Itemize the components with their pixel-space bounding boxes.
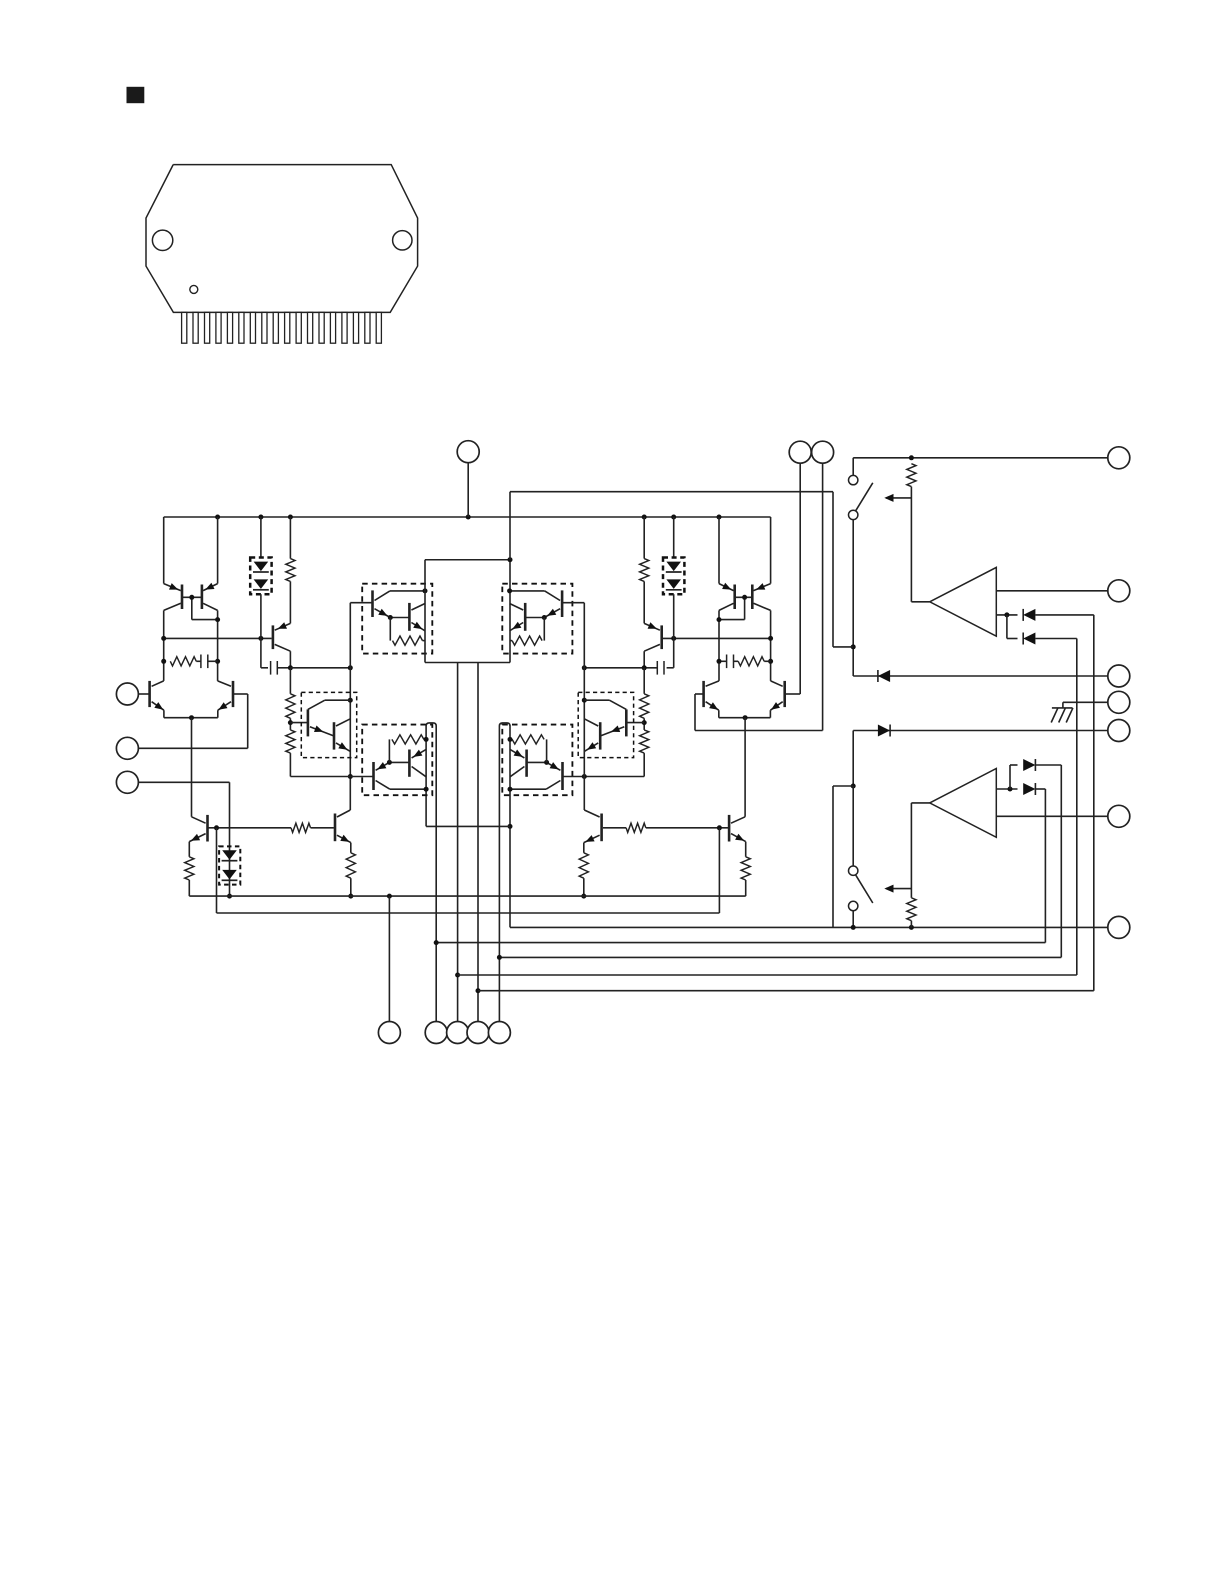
- transistor Q3 (ch1 VAS): [273, 622, 291, 668]
- transistor Q1 (ch1 mirror left): [164, 517, 182, 681]
- wire D12 to riser: [1035, 764, 1061, 766]
- transistor Q6 (ch1 tail source): [189, 815, 207, 857]
- pin P1 (bottom): [378, 1022, 400, 1044]
- transistor Q26 (ch2 bias darlington 2): [584, 719, 600, 752]
- transistor Q8 (bias darlington 1): [308, 700, 350, 736]
- wire D9 to riser: [1035, 638, 1076, 640]
- wire center leg A: [455, 663, 460, 1022]
- dashed box ch1 upper darlington: [362, 584, 432, 654]
- wire left bias line: [138, 782, 232, 898]
- wire ch1 base line (mirror to VAS): [161, 636, 271, 641]
- diode pair D3 D4 (ch1 lower string): [219, 846, 240, 884]
- pin GND (right): [1108, 691, 1130, 713]
- resistor R20 (ch2 mute): [907, 898, 916, 928]
- dashed box ch1 lower darlington: [362, 725, 432, 796]
- pin P3 (bottom): [447, 1022, 469, 1044]
- pin P5 (bottom): [488, 1022, 510, 1044]
- transistor Q17 (ch2 lower darlington 2): [510, 749, 527, 776]
- wire fb riser D: [1060, 765, 1062, 957]
- wire fb riser C: [1044, 789, 1046, 943]
- pin VCC (top): [457, 441, 479, 463]
- IC package pins (18): [182, 312, 382, 343]
- resistor R13 (ch2 VAS emitter): [640, 517, 649, 623]
- diode D10 (ch2 clamp): [878, 725, 890, 737]
- wire opamp1 in- stub: [996, 612, 1017, 617]
- diode D8 (ch1 fb upper): [1023, 609, 1035, 621]
- wire switch stub: [852, 458, 854, 476]
- diode pair D1 D2 (ch1 bias string): [250, 517, 271, 668]
- node VCC top rail: [164, 516, 771, 518]
- wire output join line: [426, 825, 510, 827]
- capacitor C1 (ch1 comp): [196, 655, 217, 669]
- transistor Q16 (ch2 lower darlington 1): [508, 760, 563, 792]
- resistor R10 (ch1 lower emitter): [389, 735, 428, 763]
- resistor R15 (ch2 driver base): [603, 823, 646, 832]
- wire pin to Q4 base: [138, 693, 149, 695]
- wire rail VEE: [189, 894, 745, 899]
- pin OUT1 (right): [1108, 447, 1130, 469]
- resistor R3 (Q6 emitter): [185, 857, 194, 896]
- wire U-bridge left: [426, 723, 436, 1022]
- wire ch1 mute rail: [853, 455, 1108, 460]
- resistor R5 (Q7 emitter): [346, 853, 355, 899]
- wire rail bias return: [217, 828, 720, 913]
- wire ch2 out riser: [508, 726, 513, 928]
- resistor R2 (ch1 VAS emitter): [286, 517, 295, 623]
- transistor Q5 (ch1 diff right): [218, 681, 233, 718]
- dashed box ch2 upper darlington: [502, 584, 572, 654]
- wire bias tap: [290, 722, 308, 724]
- pin IN1- (left): [116, 737, 138, 759]
- switch SW2 (ch2 mute): [849, 866, 873, 911]
- pin FB2 (right): [1108, 720, 1130, 742]
- pin OUT2 (right): [1108, 916, 1130, 938]
- wire ch1 mute riser: [851, 520, 856, 676]
- resistor R19 (ch1 mute): [907, 464, 916, 487]
- transistor Q22 (ch2 diff left): [704, 681, 719, 718]
- wire opamp1 in+ line: [996, 590, 1108, 592]
- arrow mute drive ch1: [884, 494, 911, 502]
- wire top pin3 riser: [822, 463, 824, 730]
- transistor Q23 (ch2 tail source): [729, 815, 746, 857]
- resistor R16 (Q24 emitter): [579, 853, 588, 899]
- wire fb riser A: [1093, 615, 1095, 991]
- resistor R6 (ch1 bias chain upper): [286, 668, 295, 730]
- wire ch2 mute rail: [510, 925, 1108, 930]
- capacitor C4 (ch2 miller): [582, 661, 674, 675]
- capacitor C2 (ch1 miller): [261, 661, 353, 675]
- transistor Q13 (ch2 upper darlington 2): [510, 603, 526, 631]
- wire center leg B: [476, 663, 481, 1022]
- wire ch2 diff emitters: [719, 715, 771, 720]
- resistor R8 (ch1 upper emitter): [390, 618, 425, 646]
- wire branch to D9: [1007, 615, 1018, 639]
- diode D7 (ch1 clamp): [878, 670, 890, 682]
- op-amp U2 (ch2): [930, 769, 997, 838]
- wire gnd stub: [1063, 702, 1108, 708]
- wire ch2 mute riser upper: [851, 731, 856, 789]
- wire ch2 VAS drive riser: [582, 603, 587, 810]
- wire ch1 clamp line: [853, 675, 1108, 677]
- wire U-bridge right: [499, 723, 510, 1022]
- wire opamp2 in- stub: [996, 787, 1017, 792]
- pin bias (left): [116, 771, 138, 793]
- op-amp U1 (ch1): [930, 567, 997, 636]
- section marker: [127, 87, 145, 103]
- dashed box ch2 lower darlington: [502, 725, 572, 796]
- transistor Q25 (ch2 bias darlington 1): [584, 700, 626, 736]
- transistor Q19 (ch2 mirror left, diode-connected): [719, 517, 735, 681]
- dashed box ch2 bias multiplier: [578, 692, 633, 757]
- pin NF1 (right): [1108, 580, 1130, 602]
- wire ch1 bias to driver line: [290, 776, 373, 778]
- wire fb riser B: [1076, 639, 1078, 976]
- wire ch1 sense corner: [833, 492, 853, 647]
- wire D11 to riser: [1035, 788, 1045, 790]
- diode D12 (ch2 fb upper): [1023, 759, 1035, 771]
- diode D11 (ch2 fb lower): [1023, 783, 1035, 795]
- wire ch2 switch stub upper: [852, 786, 854, 866]
- transistor Q11 (ch1 upper darlington 2): [409, 603, 425, 631]
- wire mirror base join: [182, 595, 220, 622]
- wire ch2 mirror base join: [717, 595, 753, 622]
- arrow mute drive ch2: [884, 885, 911, 893]
- wire fb rail D: [478, 990, 1094, 992]
- junction dots on VCC rail: [215, 515, 721, 520]
- wire opamp1 output riser: [910, 487, 912, 602]
- capacitor C3 (ch2 comp): [717, 655, 774, 669]
- transistor Q12 (ch2 upper darlington 1): [507, 588, 562, 620]
- wire Q22 base line: [695, 694, 823, 731]
- pin IN2- (top): [812, 441, 834, 463]
- wire ch2 bias tap: [626, 722, 644, 724]
- transistor Q18 (ch2 mirror right): [752, 517, 770, 681]
- wire box1 input: [350, 602, 372, 604]
- wire fb rail A: [434, 940, 1046, 945]
- dashed box ch1 bias multiplier: [301, 692, 356, 757]
- resistor R4 (ch1 driver base): [291, 823, 334, 832]
- transistor Q9 (bias darlington 2): [334, 719, 350, 752]
- wire opamp2 in+ line: [996, 815, 1108, 817]
- wire opamp2 output riser: [910, 803, 912, 898]
- resistor R17 (ch2 bias chain upper): [640, 668, 649, 730]
- pin IN2+ (top): [789, 441, 811, 463]
- pin P2 (bottom): [425, 1022, 447, 1044]
- wire fb rail C: [458, 974, 1077, 976]
- pin1 index hole: [190, 285, 198, 293]
- diode pair D5 D6 (ch2 bias string): [663, 517, 684, 668]
- transistor Q14 (ch1 lower darlington 1): [374, 760, 429, 792]
- wire ch2 base line (VAS to mirror): [663, 636, 773, 641]
- wire opamp1 output stub: [911, 601, 929, 603]
- transistor Q4 (ch1 diff left): [150, 681, 164, 718]
- transistor Q24 (ch2 driver): [584, 810, 602, 853]
- transistor Q20 (ch2 VAS): [644, 622, 662, 668]
- resistor R11 (ch2 lower emitter): [508, 735, 547, 763]
- resistor R18 (ch2 bias chain lower): [640, 720, 649, 776]
- ground symbol: [1051, 708, 1073, 723]
- diode D9 (ch1 fb lower): [1023, 633, 1035, 645]
- transistor Q15 (ch1 lower darlington 2): [409, 749, 426, 776]
- IC package outline: [146, 165, 418, 313]
- switch SW1 (ch1 mute): [849, 475, 873, 519]
- transistor Q21 (ch2 diff right): [770, 681, 784, 718]
- wire ch2 source base line: [646, 825, 729, 830]
- wire VCC pin to rail: [467, 463, 469, 517]
- resistor R9 (ch2 upper emitter): [510, 618, 545, 646]
- pin P4 (bottom): [467, 1022, 489, 1044]
- resistor R7 (ch1 bias chain lower): [286, 720, 295, 776]
- wire top pin2 riser: [799, 463, 801, 694]
- wire ch2 clamp line: [853, 730, 1108, 732]
- wire ch1 diff emitters: [164, 715, 218, 720]
- mounting hole left: [152, 230, 172, 250]
- transistor Q10 (ch1 upper darlington 1): [373, 588, 428, 620]
- wire D8 to riser: [1035, 614, 1093, 616]
- wire ch2 tail riser: [744, 718, 746, 817]
- wire opamp2 output stub: [911, 802, 929, 804]
- wire ch1 source base line: [208, 825, 292, 830]
- transistor Q7 (ch1 driver): [335, 810, 351, 853]
- resistor R14 (Q23 emitter): [741, 857, 750, 896]
- wire ch1 out sense riser: [509, 492, 511, 560]
- mounting hole right: [393, 231, 412, 250]
- wire box2 input: [562, 602, 584, 604]
- resistor R1 (ch1 comp): [161, 657, 220, 666]
- wire fb rail B: [497, 955, 1061, 960]
- wire pin riser P1: [388, 896, 390, 1022]
- wire ch2 bias to driver line: [563, 774, 645, 779]
- wire ch1 tail riser: [191, 718, 193, 817]
- wire branch to D12: [1010, 765, 1018, 789]
- wire ch2 switch stub lower: [852, 911, 854, 928]
- wire pin to Q5 base: [138, 694, 248, 748]
- pin FB1 (right): [1108, 665, 1130, 687]
- transistor Q2 (ch1 mirror right, diode-connected): [202, 517, 218, 681]
- node output collector block: [425, 557, 513, 662]
- wire Q21 base to top pin: [785, 693, 801, 695]
- resistor R12 (ch2 comp): [738, 657, 770, 666]
- wire ch1 out sense line: [510, 491, 833, 493]
- pin IN1+ (left): [116, 683, 138, 705]
- pin NF2 (right): [1108, 805, 1130, 827]
- wire ch1 VAS drive riser: [348, 603, 353, 810]
- wire ch2 sense corner: [833, 786, 853, 927]
